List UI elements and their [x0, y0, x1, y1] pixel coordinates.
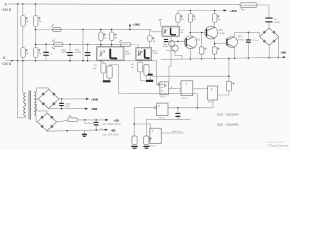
svg-text:-360: -360	[280, 51, 286, 55]
wire VT3 collector	[235, 32, 260, 37]
junction (197.3,107.8)	[197, 107, 199, 109]
wire drop x=214.6	[214, 11, 216, 14]
wire cap to VT1 base	[168, 40, 178, 42]
wire R8 top	[133, 135, 135, 137]
wire vertical x=22.8 middle	[22, 27, 24, 48]
fuse FU5	[68, 118, 78, 122]
VD5 diode 4	[50, 125, 54, 129]
wire sec1 bottom lead	[34, 99, 38, 103]
wire y=50.3 short	[166, 49, 175, 51]
wire -5 rail	[46, 130, 48, 132]
junction (83,29.5)	[82, 29, 84, 31]
svg-text:КТ858: КТ858	[238, 39, 245, 41]
wire drop x=111.6 upper	[111, 30, 113, 33]
capacitor C1 (x=46)	[45, 44, 47, 52]
VD4 diode 4	[52, 102, 56, 106]
arrester F5	[99, 32, 103, 41]
arrester F4 (x=35.5 bottom)	[34, 48, 38, 58]
junction (111.6,29.5)	[111, 29, 113, 31]
wire VT2 emitter	[214, 38, 216, 47]
transformer T1 core	[28, 91, 30, 120]
svg-text:220В: 220В	[125, 54, 131, 56]
logic box DD1.2	[181, 81, 193, 96]
wire y=44.4 (filter feed lower)	[36, 43, 139, 45]
wire R5 top	[201, 33, 203, 47]
svg-text:С7 0,1: С7 0,1	[252, 40, 259, 42]
VD1 diode 3	[263, 40, 266, 43]
wire drop x=190.3	[189, 11, 191, 14]
svg-text:ДФ2: ДФ2	[152, 49, 157, 52]
junction (35.5,29.5)	[35, 29, 37, 31]
junction (100.8,29.5)	[100, 29, 102, 31]
filter module U3 (box3)	[162, 26, 179, 36]
wire vertical x=35.5 lower	[35, 58, 37, 61]
junction on rail N at x=17.5	[17, 60, 19, 62]
svg-text:~230 В: ~230 В	[1, 62, 11, 66]
junction (87.6,44.4)	[87, 44, 89, 46]
wire VT1 emitter	[189, 49, 191, 60]
resistor R4	[144, 65, 149, 76]
arrester F6	[110, 32, 114, 41]
logic box DD1.4	[157, 103, 168, 116]
VD1 diode 4	[272, 40, 275, 43]
transistor VT2	[205, 26, 218, 39]
svg-text:DD1.3: DD1.3	[208, 102, 215, 104]
junction (83,60.7)	[82, 60, 84, 62]
zener VD3 circle	[172, 45, 178, 51]
svg-text:+36В: +36В	[133, 23, 140, 27]
wire into box2 top	[138, 45, 140, 48]
capacitor C9	[61, 99, 63, 103]
R7 tick	[232, 82, 234, 84]
wire into DD1.4	[134, 107, 154, 109]
U1 input cap symbol	[99, 51, 105, 57]
junction (84.8,119.9)	[84, 119, 86, 121]
junction on rail N at x=12	[11, 60, 13, 62]
fuse F9	[213, 14, 217, 23]
wire VD5 +out to fuse	[57, 120, 68, 122]
capacitor C4 bars	[164, 39, 168, 40]
arrester F2 (x=22.8 bottom)	[21, 48, 25, 58]
bridge rectifier VD5	[37, 113, 56, 131]
logic box DD2.1	[150, 128, 161, 143]
wire prim join	[25, 104, 27, 106]
DD1.2 pins	[179, 84, 181, 91]
wire R2 top to x=118.4	[110, 65, 119, 66]
junction (100.8,44.5)	[100, 44, 102, 46]
U2 input cap symbol	[138, 50, 143, 55]
wire R4 bottom	[146, 75, 148, 78]
arrester F3 (x=35.5 top)	[34, 16, 38, 27]
wire y=29.5 (filter feed upper)	[36, 28, 151, 30]
wire DD1.3 out right	[218, 91, 229, 95]
VD1 diode 1	[263, 31, 266, 34]
resistor R3	[138, 62, 143, 72]
svg-text:х400В: х400В	[274, 22, 281, 24]
junction (214.6,58.6)	[214, 58, 216, 60]
resistor R1 stub top	[102, 61, 104, 63]
wire fuse to corner	[257, 5, 269, 18]
ground bars R8	[131, 146, 138, 147]
junction (87.6,60.7)	[87, 60, 89, 62]
wire common y=76.2	[152, 75, 229, 77]
fuse FU4 on wire y=44.4	[120, 43, 131, 47]
junction (190.3,10.5)	[190, 10, 192, 12]
DD1.4 input circle	[155, 107, 157, 109]
transistor VT3	[227, 37, 238, 48]
junction (96.2,129.9)	[95, 129, 97, 131]
wire DD1.2 out	[193, 88, 208, 90]
fuse FU2 on wire y=29.5	[52, 27, 61, 31]
DD2.1 pins	[148, 132, 150, 138]
svg-text:VT2: VT2	[219, 30, 224, 32]
junction on rail N at x=35.5	[35, 60, 37, 62]
transformer T1 secondary 2	[34, 104, 36, 115]
transistor VT1	[184, 36, 197, 49]
resistor R5 (VT1 side)	[199, 47, 204, 54]
junction (234.7,58.3)	[234, 58, 236, 60]
wire vertical x=22.8 lower	[22, 58, 24, 61]
wire W2 y=124	[134, 124, 150, 128]
wire x=171 long drop	[169, 36, 171, 82]
junction (201.6,32.5)	[201, 32, 203, 34]
svg-text:~230 В: ~230 В	[1, 8, 11, 12]
resistor R7 (to -360)	[226, 81, 231, 91]
wire N end drop x=156.5	[157, 61, 160, 84]
svg-text:1М: 1М	[131, 67, 134, 69]
logic box DD1.3	[208, 86, 218, 100]
chassis bar B	[146, 80, 153, 82]
wire R6 to rail	[214, 54, 216, 58]
resistor R3 stub	[139, 60, 141, 62]
U2 inductor glyph	[145, 49, 150, 58]
wire F7 to U3 top	[177, 23, 179, 27]
svg-text:DD2 - К155ЛЕ1: DD2 - К155ЛЕ1	[217, 122, 239, 126]
fuse F8	[188, 14, 192, 23]
resistor R1	[101, 63, 106, 73]
ground bars ZQ1	[143, 146, 149, 147]
logic box DD1.1	[160, 82, 169, 95]
wire corner into F10	[149, 29, 151, 35]
wire VD4 -out	[49, 108, 88, 110]
U1 inductor glyph	[110, 49, 117, 59]
zener VD2 circle	[169, 41, 175, 47]
capacitor C8 (DD1.4 out)	[177, 108, 179, 113]
junction (214.6,43.7)	[214, 43, 216, 45]
wire drop x=100.8 upper	[100, 30, 102, 33]
transformer T1 primary winding 1	[24, 93, 26, 104]
filter module U1 (box1)	[97, 47, 124, 61]
svg-text:1М: 1М	[93, 68, 96, 70]
junction (178,41.4)	[177, 41, 179, 43]
capacitor C10	[95, 120, 97, 122]
node tick (171.5,88.3)	[171, 87, 173, 89]
svg-text:х25В: х25В	[163, 46, 168, 48]
fuse FU3 on wire y=44.4	[54, 42, 63, 46]
wire VT3 emitter	[234, 47, 236, 59]
junction (67.2,130.8)	[66, 130, 68, 132]
wire F9 to VT2	[214, 23, 216, 29]
junction on rail A at x=35.5	[35, 3, 37, 5]
junction (278.3,57.4)	[278, 57, 280, 59]
svg-text:©РадиоСхема.рф: ©РадиоСхема.рф	[268, 144, 288, 147]
U3 inductor glyph	[171, 28, 176, 35]
arrester F10 (above box2)	[148, 36, 152, 42]
wire vertical x=134.2	[133, 108, 135, 136]
VD5 diode 3	[40, 125, 44, 129]
ground bar bottom	[82, 134, 87, 136]
capacitor C6 (bridge feed)	[265, 18, 272, 19]
junction (177.9,107.8)	[177, 107, 179, 109]
junction (201.6,58.9)	[201, 58, 203, 60]
wire R3 bottom	[140, 72, 146, 81]
wire vertical x=118.4 long	[118, 65, 197, 94]
svg-text:DD2.1: DD2.1	[150, 145, 157, 147]
wire ground stub	[149, 76, 151, 80]
junction on rail A at x=17.7	[17, 3, 19, 5]
svg-text:(пит. ПЗУ, DD2): (пит. ПЗУ, DD2)	[102, 135, 118, 137]
junction (228.9,76.2)	[228, 75, 230, 77]
wire sec1 top lead	[34, 88, 49, 92]
svg-text:+5В: +5В	[113, 119, 119, 123]
R5 tick	[204, 47, 206, 49]
wire prim bottom lead	[18, 116, 26, 118]
wire sec2 top lead	[34, 104, 47, 113]
capacitor C5 on x=248.4	[247, 32, 249, 39]
wire sec2 bottom lead	[34, 115, 37, 122]
crystal ZQ1	[144, 136, 149, 145]
junction (35.5,44.3)	[35, 44, 37, 46]
wire VT1 collector to VT2 base	[190, 32, 206, 34]
wire DD2.1 out	[161, 132, 184, 134]
fuse FU1 (mains, top)	[240, 3, 257, 8]
junction (100.8,61.0)	[100, 60, 102, 62]
junction (248.4,32.4)	[248, 32, 250, 34]
wire W1 y=119.3	[146, 118, 190, 120]
resistor R6 (VT2 emitter)	[212, 47, 217, 54]
svg-text:СФ: СФ	[180, 28, 184, 31]
R6 tick	[217, 47, 219, 49]
wire R2 bottom	[109, 78, 111, 80]
wire neutral rail N (y=60.7)	[6, 60, 158, 62]
svg-text:-5В: -5В	[111, 128, 117, 132]
wire bridge right down	[277, 37, 280, 58]
filter module U2 (box2)	[136, 48, 152, 61]
resistor R2	[107, 66, 112, 78]
wire y=107.8 DD1.4 out	[168, 107, 213, 109]
chassis bar A	[148, 74, 153, 76]
svg-text:Вых. 1кГц: Вых. 1кГц	[172, 131, 182, 133]
transformer T1 primary winding 2	[24, 106, 26, 117]
svg-text:220В: 220В	[152, 53, 158, 55]
VD4 diode 1	[42, 92, 46, 96]
capacitor C3 (x=87.6)	[87, 44, 89, 52]
svg-text:+36В: +36В	[91, 97, 99, 101]
transformer T1 secondary 1	[34, 92, 36, 103]
wire DD1.3 bottom drop	[212, 100, 214, 108]
svg-text:DD1.2: DD1.2	[182, 98, 189, 100]
VD1 diode 2	[272, 31, 275, 34]
VD5 diode 2	[50, 116, 54, 120]
VD4 diode 2	[52, 92, 56, 96]
VD5 diode 1	[40, 116, 44, 120]
junction (214.6,10.5)	[214, 10, 216, 12]
bridge rectifier VD4	[38, 89, 59, 108]
resistor R8 (osc)	[132, 136, 137, 145]
antenna hook x=160.4	[159, 20, 162, 21]
junction (46,44.3)	[45, 44, 47, 46]
svg-text:КТ940: КТ940	[219, 33, 226, 35]
U3 input symbol	[164, 29, 168, 34]
wire bridge bottom	[268, 45, 270, 57]
wire F10 to box2 top	[149, 42, 151, 48]
junction (190.3,59.1)	[190, 58, 192, 60]
junction (70,60.7)	[69, 60, 71, 62]
junction (228.9,58.4)	[228, 58, 230, 60]
junction (269.2,57.7)	[268, 57, 270, 59]
wire vertical x=35.5 upper	[35, 4, 37, 16]
rail +360 (y=10.5)	[178, 10, 226, 12]
junction (134.2,124)	[133, 123, 135, 125]
junction (111.6,44.5)	[111, 44, 113, 46]
wire VT3 base	[215, 42, 227, 44]
svg-text:х50В: х50В	[65, 106, 70, 108]
wire vertical x=83	[82, 30, 84, 61]
wire VD4 +out	[59, 98, 88, 100]
svg-text:VT3: VT3	[238, 37, 243, 39]
ground stub bottom	[83, 130, 85, 133]
svg-text:+360: +360	[230, 9, 237, 13]
wire vertical x=197.3 drop	[196, 94, 198, 109]
resistor R1 stub bottom	[102, 73, 104, 80]
svg-text:VT1: VT1	[196, 39, 201, 41]
DD1.1 input circle	[158, 83, 160, 85]
fuse F7	[176, 14, 180, 23]
wire F8 to VT1	[189, 23, 191, 37]
junction on rail N at x=22.8	[22, 60, 24, 62]
wire VD3 to rail	[175, 51, 182, 59]
svg-text:DD1 - К155ЛА3: DD1 - К155ЛА3	[217, 112, 239, 116]
wire drop x=100.8 lower	[100, 41, 102, 47]
svg-text:х275В: х275В	[75, 52, 82, 54]
svg-text:х275В: х275В	[61, 52, 68, 54]
wire transformer prim feed	[23, 61, 26, 93]
wire VT1 base	[178, 40, 185, 42]
junction (248.4,58.1)	[248, 57, 250, 59]
junction (61.5,98.9)	[61, 98, 63, 100]
arrester F1 (x=22.8 top)	[21, 16, 25, 27]
wire phase rail A (y=4)	[8, 3, 240, 6]
junction (96.2,119.9)	[95, 119, 97, 121]
ground bar under box1	[103, 80, 111, 82]
wire rail start drop	[177, 11, 179, 14]
svg-text:(пит. МОЗУ, DD1): (пит. МОЗУ, DD1)	[102, 124, 120, 126]
wire drop x=111.6 lower	[111, 41, 113, 47]
svg-text:DD1.1: DD1.1	[160, 97, 167, 99]
rail -360 (bottom of amp)	[161, 57, 283, 59]
wire jog into U3	[150, 29, 162, 31]
junction (70,44.4)	[69, 44, 71, 46]
junction (130,29.4)	[129, 29, 131, 31]
junction (61.5,108.7)	[61, 108, 63, 110]
wire vertical x=22.8 upper	[22, 4, 24, 16]
bridge rectifier VD1 (top right)	[260, 28, 279, 45]
svg-text:-36В: -36В	[91, 107, 98, 111]
wire bridge left stub	[259, 32, 261, 36]
junction (190.3,32.5)	[190, 32, 192, 34]
node +36V tap stub	[129, 25, 131, 29]
wire R7 top to rail	[228, 58, 230, 81]
VD4 diode 3	[42, 102, 46, 106]
wire +5 rail	[78, 119, 108, 121]
svg-text:100,0х6,3В: 100,0х6,3В	[84, 123, 95, 125]
wire vertical x=35.5 middle	[35, 27, 37, 48]
wire R5 bottom	[201, 54, 203, 59]
wire DD1.1 out	[168, 87, 181, 89]
DD1.1 marks	[161, 84, 166, 91]
junction on rail A at x=22.8	[22, 3, 24, 5]
wire vertical x=17.5 (A to transformer)	[17, 4, 19, 118]
capacitor C2 (x=70)	[69, 44, 71, 52]
